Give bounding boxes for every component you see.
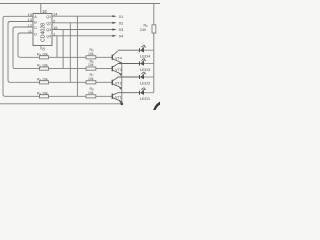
svg-text:LED1: LED1 <box>140 96 151 101</box>
wire input C line <box>13 27 40 69</box>
wire row3 horizontal <box>49 81 87 83</box>
svg-text:16: 16 <box>42 9 47 14</box>
svg-text:LED4: LED4 <box>140 53 151 58</box>
LED LED4 <box>140 45 154 53</box>
wire output Q3 line <box>52 29 113 31</box>
wire top +V rail <box>0 3 160 5</box>
resistor R3 box <box>40 81 49 84</box>
svg-text:01: 01 <box>119 14 124 19</box>
LED LED2 <box>140 72 154 80</box>
svg-text:15: 15 <box>53 25 58 30</box>
wire row4 horizontal <box>49 95 87 97</box>
svg-text:Q2: Q2 <box>46 22 51 26</box>
svg-text:B: B <box>34 20 37 24</box>
LED LED1 <box>140 87 154 95</box>
wire row1 horizontal <box>49 56 87 58</box>
svg-text:04: 04 <box>119 33 124 38</box>
wire IC pin8 stub <box>40 46 42 50</box>
wire output Q4 line <box>52 35 113 37</box>
wire common emitter vertical <box>121 63 123 104</box>
svg-text:Q3: Q3 <box>46 28 51 32</box>
resistor R8 box <box>86 95 96 98</box>
wire input B line <box>8 22 40 83</box>
node output arrow 02 <box>112 22 116 24</box>
wire input D line <box>18 33 40 57</box>
node output arrow 03 <box>112 28 116 30</box>
svg-text:VT3: VT3 <box>115 68 122 72</box>
corner artifact bottom right <box>153 102 160 110</box>
transistor VT2 <box>112 77 139 90</box>
svg-text:CD4028: CD4028 <box>40 23 46 42</box>
node ground junction dot <box>120 102 123 105</box>
transistor VT1 <box>112 93 139 104</box>
svg-text:LED3: LED3 <box>140 67 151 72</box>
svg-text:13: 13 <box>28 17 33 22</box>
resistor R9 box <box>152 25 156 33</box>
node output arrow 01 <box>112 15 116 17</box>
LED LED3 <box>140 58 154 66</box>
resistor R4 box <box>40 95 49 98</box>
resistor R7 box <box>86 81 96 84</box>
svg-text:03: 03 <box>119 27 124 32</box>
svg-text:LED2: LED2 <box>140 80 151 85</box>
svg-text:VT1: VT1 <box>115 96 122 100</box>
transistor VT3 <box>112 64 139 76</box>
svg-text:R1 10k: R1 10k <box>37 52 48 57</box>
wire bottom ground rail <box>0 103 122 105</box>
svg-text:240: 240 <box>140 28 146 32</box>
svg-text:R3 10k: R3 10k <box>37 77 48 82</box>
wire input A line <box>3 16 40 96</box>
IC U1 CD4028 box <box>33 14 52 46</box>
transistor VT4 <box>112 50 139 64</box>
wire right +V rail <box>153 4 155 25</box>
svg-text:10k: 10k <box>88 52 94 56</box>
output arrowheads <box>112 15 116 37</box>
svg-text:14: 14 <box>53 12 58 17</box>
svg-text:A: A <box>34 15 37 19</box>
resistor R2 box <box>40 67 49 70</box>
svg-text:Q4: Q4 <box>46 35 51 39</box>
svg-text:02: 02 <box>119 20 124 25</box>
svg-text:D: D <box>34 32 37 36</box>
svg-text:Q1: Q1 <box>46 15 51 19</box>
resistor R1 box <box>40 56 49 59</box>
svg-text:12: 12 <box>28 23 33 28</box>
wire Q1 drop to row4 <box>76 16 78 96</box>
svg-text:R2 10k: R2 10k <box>37 64 48 69</box>
wire output Q2 line <box>52 22 113 24</box>
svg-text:C: C <box>34 26 37 30</box>
wire IC pin16 to top rail <box>40 4 42 14</box>
wire Q3 drop to row2 <box>62 30 64 69</box>
svg-text:10k: 10k <box>88 63 94 67</box>
svg-text:VT4: VT4 <box>115 57 122 61</box>
resistor R6 box <box>86 67 96 70</box>
wire output Q1 line <box>52 15 113 17</box>
svg-text:10k: 10k <box>88 77 94 81</box>
node output arrow 04 <box>112 35 116 37</box>
svg-text:10k: 10k <box>88 91 94 95</box>
wire Q2 drop to row3 <box>69 23 71 83</box>
wire row2 horizontal <box>49 68 87 70</box>
resistor R5 box <box>86 56 96 59</box>
wire Q4 drop to row1 <box>56 36 58 58</box>
svg-text:VT2: VT2 <box>115 82 122 86</box>
svg-text:R4 10k: R4 10k <box>37 91 48 96</box>
